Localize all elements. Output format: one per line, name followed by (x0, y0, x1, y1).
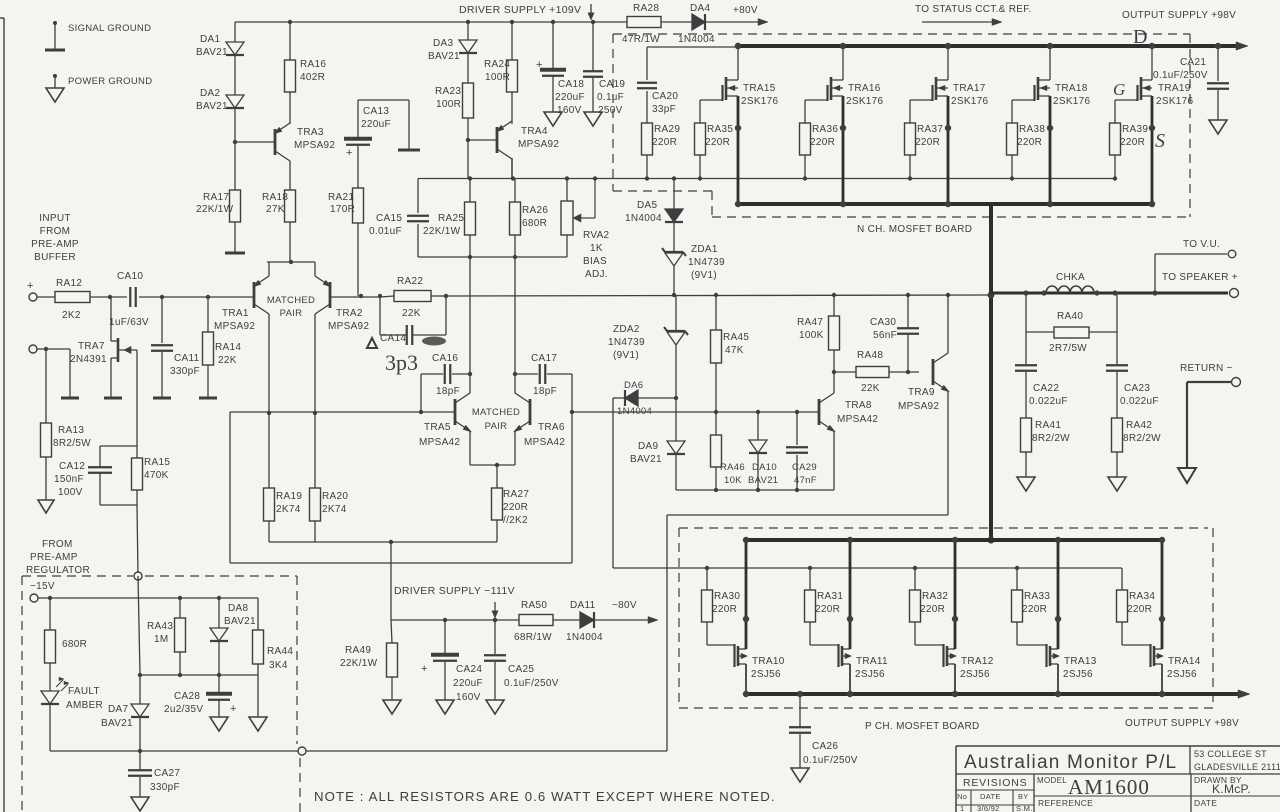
hand mark G (1113, 80, 1125, 99)
capacitor CA25 (484, 620, 559, 700)
svg-text:GLADESVILLE 2111: GLADESVILLE 2111 (1194, 762, 1280, 772)
svg-text:DA4: DA4 (690, 3, 710, 14)
svg-text:8R2/2W: 8R2/2W (1123, 433, 1161, 444)
svg-text:33pF: 33pF (652, 104, 676, 115)
wire RA39 to gate of TRA19 (1115, 100, 1138, 123)
wire TRA8 emitter down (833, 431, 835, 490)
svg-text:BAV21: BAV21 (428, 51, 460, 62)
wire TRA19 drain to +98V bus (1141, 43, 1155, 80)
title address (1194, 749, 1280, 772)
svg-text:MPSA92: MPSA92 (898, 401, 939, 412)
transistor TRA9 (898, 353, 949, 412)
wire TRA17 drain to +98V bus (936, 43, 951, 80)
svg-text:MATCHED: MATCHED (472, 407, 520, 418)
svg-text:8R2/5W: 8R2/5W (53, 438, 91, 449)
svg-text:0.022uF: 0.022uF (1029, 396, 1068, 407)
svg-text:402R: 402R (300, 72, 325, 83)
transistor TRA19 MOSFET (1138, 77, 1194, 107)
resistor RA22 (394, 276, 431, 319)
wire RA37 to gate bus (908, 155, 912, 181)
svg-text:BAV21: BAV21 (196, 101, 228, 112)
wire matched pair emitter bar (267, 260, 315, 264)
svg-text:RA22: RA22 (397, 276, 423, 287)
label TO STATUS CCT and REF (915, 4, 1032, 15)
svg-text:CA29: CA29 (792, 462, 817, 473)
svg-text:Australian Monitor P/L: Australian Monitor P/L (964, 752, 1177, 773)
wire CA15 RA25 bottom rail (418, 255, 567, 259)
wire DA6 to P gate bus (612, 398, 614, 568)
wire RA33 to gate bus (1015, 566, 1019, 590)
resistor RA17 (196, 190, 241, 222)
wire fault bottom rail (50, 749, 667, 753)
svg-text:RA34: RA34 (1129, 591, 1155, 602)
wire RA32 to gate bus (913, 566, 917, 590)
svg-text:18pF: 18pF (436, 386, 460, 397)
svg-text:AMBER: AMBER (66, 700, 103, 711)
svg-text:(9V1): (9V1) (613, 350, 639, 361)
svg-text:RA29: RA29 (654, 124, 680, 135)
wire RA31 to gate bus (808, 566, 812, 590)
resistor RA44 (253, 630, 294, 671)
wire N drain bus +98V (738, 42, 1248, 50)
svg-text:47nF: 47nF (794, 475, 817, 486)
zener ZDA2 (608, 295, 688, 441)
diode DA8 (210, 598, 256, 675)
svg-text:DA10: DA10 (752, 462, 777, 473)
svg-text:TRA10: TRA10 (752, 656, 785, 667)
signal ground at TRA7 gate (104, 397, 122, 400)
svg-text:RA18: RA18 (262, 192, 288, 203)
svg-text:22K: 22K (218, 355, 237, 366)
resistor RA50 (514, 600, 553, 643)
wire CA11 to ground (161, 351, 163, 397)
wire input2 to ground stem (37, 347, 70, 351)
resistor RA30 (702, 590, 741, 622)
svg-text:0.1uF/250V: 0.1uF/250V (803, 755, 858, 766)
wire RA30 to gate bus (705, 566, 709, 590)
svg-text:CA21: CA21 (1180, 57, 1206, 68)
resistor RA28 (622, 3, 661, 45)
svg-text:8R2/2W: 8R2/2W (1032, 433, 1070, 444)
svg-text:CA30: CA30 (870, 317, 896, 328)
capacitor CA13 (344, 106, 391, 159)
transistor TRA8 (819, 393, 878, 432)
svg-text:CA26: CA26 (812, 741, 838, 752)
power ground below CA19 (584, 112, 602, 126)
resistor RA14 (203, 297, 242, 366)
svg-text:MPSA92: MPSA92 (328, 321, 369, 332)
power ground below RA42 (1108, 477, 1126, 491)
resistor RA48 (834, 350, 919, 394)
svg-text:22K: 22K (861, 383, 880, 394)
resistor RA45 (711, 293, 750, 363)
wire RA17 to ground (234, 222, 236, 252)
power ground below RA44 (249, 717, 267, 731)
svg-text:22K/1W: 22K/1W (196, 204, 234, 215)
svg-text:CA23: CA23 (1124, 383, 1150, 394)
transistor TRA3 (235, 92, 335, 190)
svg-text:OUTPUT SUPPLY +98V: OUTPUT SUPPLY +98V (1125, 718, 1239, 729)
capacitor CA22 (1015, 332, 1068, 418)
wire RA44 to ground (257, 664, 259, 717)
wire TRA18 drain to +98V bus (1038, 43, 1053, 80)
svg-text:220uF: 220uF (453, 678, 483, 689)
svg-text:0.1uF/250V: 0.1uF/250V (1153, 70, 1208, 81)
diode DA9 (630, 441, 685, 490)
svg-text:2SJ56: 2SJ56 (1167, 669, 1197, 680)
wire TRA11 substrate pin (842, 653, 852, 658)
resistor RA19 (264, 488, 303, 521)
wire RA41 to ground (1025, 452, 1027, 477)
terminal TO VU (1183, 239, 1236, 258)
svg-text:220R: 220R (705, 137, 730, 148)
svg-text:K.McP.: K.McP. (1212, 782, 1251, 796)
power ground below RA41 (1017, 477, 1035, 491)
svg-text:RA42: RA42 (1126, 420, 1152, 431)
svg-text:TRA15: TRA15 (743, 83, 776, 94)
svg-text:ZDA2: ZDA2 (613, 324, 640, 335)
wire TRA5 emitter down (469, 431, 471, 465)
resistor 680R (45, 630, 88, 663)
svg-text:220R: 220R (815, 604, 840, 615)
svg-text:RA35: RA35 (707, 124, 733, 135)
wire -15V rail (38, 596, 258, 600)
svg-text:TRA19: TRA19 (1158, 83, 1191, 94)
wire RA22 right node (431, 294, 448, 298)
wire RA30 to gate of TRA10 (707, 622, 735, 645)
svg-text:ADJ.: ADJ. (585, 269, 608, 280)
svg-text:RETURN −: RETURN − (1180, 363, 1233, 374)
svg-text:100R: 100R (485, 72, 510, 83)
capacitor CA12 (54, 446, 137, 498)
wire TRA2 collector to RA20 (313, 314, 317, 488)
svg-text:DA2: DA2 (200, 88, 220, 99)
title company name (964, 752, 1177, 773)
power ground below CA27 (131, 797, 149, 811)
svg-text:CA19: CA19 (599, 79, 625, 90)
wire RA38 to gate bus (1010, 155, 1014, 181)
wire RA23 to TRA4 base node (466, 118, 470, 179)
svg-text:MATCHED: MATCHED (267, 295, 315, 306)
svg-text:3p3: 3p3 (385, 350, 418, 375)
svg-text:BAV21: BAV21 (196, 47, 228, 58)
svg-text:TRA9: TRA9 (908, 387, 935, 398)
wire clamp rail (572, 410, 820, 414)
capacitor CA16 (421, 353, 470, 412)
svg-text:ZDA1: ZDA1 (691, 244, 718, 255)
title rev columns (957, 792, 1029, 801)
resistor RA29 (642, 123, 681, 155)
hand smudge at CA14 (422, 337, 446, 346)
resistor RA31 (805, 590, 844, 622)
svg-text:2SK176: 2SK176 (741, 96, 779, 107)
wire TRA10 drain to output bus (738, 537, 749, 649)
wire TRA14 source to P source bus (1154, 664, 1165, 697)
resistor RA12 (55, 278, 90, 321)
svg-text:REVISIONS: REVISIONS (963, 777, 1027, 789)
wire RA34 to gate bus (1121, 568, 1123, 590)
title revisions header (963, 777, 1027, 789)
wire left feedback vertical (229, 412, 231, 563)
wire TRA9 collector up (946, 293, 950, 353)
svg-text:CA14: CA14 (380, 333, 406, 344)
diode DA4 (678, 3, 715, 45)
label MATCHED PAIR upper (267, 295, 315, 319)
transistor TRA14 MOSFET (1151, 644, 1201, 680)
wire TRA13 drain to output bus (1050, 537, 1061, 649)
wire P drain bus (745, 538, 1160, 542)
power ground below RA13 (38, 500, 54, 513)
wire TRA12 substrate pin (947, 653, 957, 658)
wire bus to RA24 (510, 20, 514, 60)
svg-text:+80V: +80V (733, 5, 758, 16)
svg-text:MODEL: MODEL (1037, 776, 1067, 785)
svg-text:RA44: RA44 (267, 646, 293, 657)
wire TRA8 collector up (832, 350, 836, 393)
svg-text:220R: 220R (1120, 137, 1145, 148)
transistor TRA17 MOSFET (933, 77, 989, 107)
svg-text:TRA16: TRA16 (848, 83, 881, 94)
wire CA13 to RA21 (357, 146, 359, 188)
svg-text:470K: 470K (144, 470, 169, 481)
wire TRA18 source to source bus (1038, 96, 1053, 207)
resistor RA18 (262, 190, 296, 222)
wire RA27 bottom (496, 520, 498, 542)
svg-text:RA37: RA37 (917, 124, 943, 135)
transistor TRA10 MOSFET (735, 644, 785, 680)
svg-text:INPUT: INPUT (39, 213, 71, 224)
svg-text:TRA4: TRA4 (521, 126, 548, 137)
svg-text:CA10: CA10 (117, 271, 143, 282)
svg-text:OUTPUT SUPPLY +98V: OUTPUT SUPPLY +98V (1122, 10, 1236, 21)
svg-text:BAV21: BAV21 (224, 616, 256, 627)
resistor RA35 (695, 123, 734, 155)
power ground below CA26 (791, 768, 809, 782)
capacitor CA15 (369, 179, 429, 258)
svg-text:220R: 220R (503, 502, 528, 513)
wire RA31 to gate of TRA11 (810, 622, 839, 645)
svg-text:2SJ56: 2SJ56 (1063, 669, 1093, 680)
wire DA4 to +80V arrow (705, 19, 768, 26)
svg-text:CA25: CA25 (508, 664, 534, 675)
title revision entry (960, 804, 1033, 812)
svg-text:1K: 1K (590, 243, 603, 254)
svg-text:S.M.: S.M. (1016, 804, 1033, 812)
wire DA2 to RA17 (233, 108, 237, 190)
svg-text:RA30: RA30 (714, 591, 740, 602)
wire TRA15 source to source bus (726, 96, 741, 207)
label DRIVER SUPPLY +109V (459, 4, 581, 16)
power ground below CA18 (544, 112, 562, 126)
node ZDA1 bottom on mid rail (672, 293, 676, 297)
svg-text:47R/1W: 47R/1W (622, 34, 660, 45)
wire CA10 to TRA1 base (139, 295, 253, 299)
svg-text:220uF: 220uF (555, 92, 585, 103)
transistor TRA13 MOSFET (1047, 644, 1097, 680)
label TO SPEAKER + (1162, 272, 1238, 283)
wire RA12 to CA10 (90, 295, 127, 299)
svg-text:CA16: CA16 (432, 353, 458, 364)
label FROM PRE-AMP REGULATOR (26, 539, 90, 576)
svg-text:160V: 160V (456, 692, 481, 703)
svg-text:PAIR: PAIR (280, 308, 303, 319)
svg-text:PAIR: PAIR (485, 421, 508, 432)
label INPUT FROM PRE-AMP BUFFER (31, 213, 79, 263)
signal ground below RA14 (199, 397, 217, 400)
transistor TRA18 MOSFET (1035, 77, 1091, 107)
wire TRA11 source to P source bus (842, 664, 853, 697)
svg-text:1uF/63V: 1uF/63V (109, 317, 149, 328)
svg-text:G: G (1113, 80, 1125, 99)
capacitor CA28 (164, 675, 237, 717)
svg-text:TRA8: TRA8 (845, 400, 872, 411)
wire P source bus (746, 690, 1250, 698)
wire TRA1 collector to RA19 (267, 314, 271, 488)
svg-text:FROM: FROM (40, 226, 71, 237)
svg-text:DA7: DA7 (108, 704, 128, 715)
power ground below CA21 (1209, 120, 1227, 134)
wire TRA10 source to P source bus (738, 664, 749, 697)
wire RVA2 bottom (566, 235, 568, 257)
svg-text:TO SPEAKER +: TO SPEAKER + (1162, 272, 1238, 283)
wire clamp bottom rail (676, 488, 834, 492)
svg-text:RA49: RA49 (345, 645, 371, 656)
svg-text:CA15: CA15 (376, 213, 402, 224)
wire fault node rail (138, 673, 258, 677)
svg-text:220R: 220R (810, 137, 835, 148)
svg-text:1N4004: 1N4004 (678, 34, 715, 45)
wire output line to speaker (991, 292, 1228, 295)
svg-text:TRA14: TRA14 (1168, 656, 1201, 667)
svg-text:RA41: RA41 (1035, 420, 1061, 431)
svg-text:220R: 220R (1017, 137, 1042, 148)
svg-text:RA31: RA31 (817, 591, 843, 602)
capacitor CA14 (380, 296, 446, 345)
svg-text:RA13: RA13 (58, 425, 84, 436)
svg-text:2R7/5W: 2R7/5W (1049, 343, 1087, 354)
svg-text:TRA7: TRA7 (78, 341, 105, 352)
resistor RA40 (1026, 293, 1117, 354)
svg-text:TRA13: TRA13 (1064, 656, 1097, 667)
wire RA26 column (511, 158, 515, 257)
svg-text:100R: 100R (436, 99, 461, 110)
capacitor CA21 (1153, 43, 1229, 120)
svg-text:DA11: DA11 (570, 600, 596, 611)
svg-text:220R: 220R (920, 604, 945, 615)
wire RA42 to ground (1116, 452, 1118, 477)
potentiometer RVA2 (561, 176, 610, 280)
svg-text:TRA5: TRA5 (424, 422, 451, 433)
label +80V (733, 5, 758, 16)
svg-text:MPSA42: MPSA42 (837, 414, 878, 425)
svg-text:RA12: RA12 (56, 278, 82, 289)
svg-text:2SJ56: 2SJ56 (855, 669, 885, 680)
svg-text:DATE: DATE (980, 792, 1001, 801)
wire TRA6 collector link (514, 376, 516, 393)
wire TRA11 drain to output bus (842, 537, 853, 649)
svg-text:MPSA42: MPSA42 (419, 437, 460, 448)
wire RA36 to gate bus (803, 155, 807, 181)
svg-text:RA38: RA38 (1019, 124, 1045, 135)
transistor TRA7 JFET (70, 297, 137, 397)
svg-text:RA50: RA50 (521, 600, 547, 611)
svg-text:CA28: CA28 (174, 691, 200, 702)
resistor RA21 (328, 188, 364, 223)
svg-text:+: + (421, 663, 428, 675)
resistor RA23 (435, 83, 474, 118)
svg-text:CA11: CA11 (174, 353, 200, 364)
svg-text:27K: 27K (266, 204, 285, 215)
wire RA43 to node rail (179, 652, 181, 675)
resistor RA26 (510, 202, 549, 235)
svg-text:2K2: 2K2 (62, 310, 81, 321)
hand mark D (1133, 26, 1147, 48)
svg-text:+: + (27, 280, 34, 292)
svg-text:DA5: DA5 (637, 200, 657, 211)
signal ground below RA17 (225, 252, 245, 255)
wire CA18 to ground (552, 76, 554, 112)
svg-text:DA1: DA1 (200, 34, 220, 45)
power ground below CA28 (210, 717, 228, 731)
dashed box N channel board (613, 34, 1190, 217)
svg-text://2K2: //2K2 (503, 515, 528, 526)
svg-text:REFERENCE: REFERENCE (1038, 798, 1093, 808)
label N CH MOSFET BOARD (857, 224, 972, 235)
speaker terminal (1230, 289, 1239, 298)
wire RA36 to gate of TRA16 (805, 100, 828, 123)
svg-text:220R: 220R (1022, 604, 1047, 615)
svg-text:680R: 680R (522, 218, 547, 229)
svg-text:−15V: −15V (30, 581, 55, 592)
capacitor CA24 (421, 620, 483, 703)
signal ground for CA13 (398, 149, 420, 152)
resistor RA37 (905, 123, 944, 155)
svg-text:AM1600: AM1600 (1068, 775, 1150, 799)
svg-text:P CH. MOSFET BOARD: P CH. MOSFET BOARD (865, 721, 980, 732)
svg-text:220R: 220R (915, 137, 940, 148)
svg-text:NOTE : ALL RESISTORS ARE 0.6 W: NOTE : ALL RESISTORS ARE 0.6 WATT EXCEPT… (314, 789, 776, 804)
resistor RA47 (797, 293, 840, 350)
wire CA12 bottom bracket (100, 473, 137, 505)
svg-text:10K: 10K (724, 475, 742, 486)
wire TRA17 source to source bus (936, 96, 951, 207)
wire RA39 to gate bus (1113, 155, 1117, 181)
svg-text:100V: 100V (58, 487, 83, 498)
capacitor CA17 (515, 353, 574, 414)
wire +109V bus (235, 21, 627, 23)
svg-text:RA24: RA24 (484, 59, 510, 70)
wire RA19 RA20 bottom bus (269, 521, 497, 544)
signal ground below CA11 (153, 397, 171, 400)
wire RA28 to DA4 (661, 21, 692, 23)
svg-text:TRA1: TRA1 (222, 308, 249, 319)
capacitor CA27 (128, 751, 180, 797)
svg-text:BY: BY (1018, 792, 1029, 801)
signal ground legend label (68, 23, 151, 34)
wire TRA17 substrate pin (936, 85, 948, 90)
svg-text:22K: 22K (402, 308, 421, 319)
svg-text:220R: 220R (712, 604, 737, 615)
svg-text:1N4004: 1N4004 (625, 213, 662, 224)
svg-text:1: 1 (960, 804, 964, 812)
resistor RA20 (310, 488, 349, 521)
svg-text:150nF: 150nF (54, 474, 84, 485)
svg-text:0.022uF: 0.022uF (1120, 396, 1159, 407)
svg-text:RA20: RA20 (322, 491, 348, 502)
svg-text:CA18: CA18 (558, 79, 584, 90)
wire DA1 to DA2 (234, 55, 236, 95)
capacitor CA30 (870, 293, 919, 372)
